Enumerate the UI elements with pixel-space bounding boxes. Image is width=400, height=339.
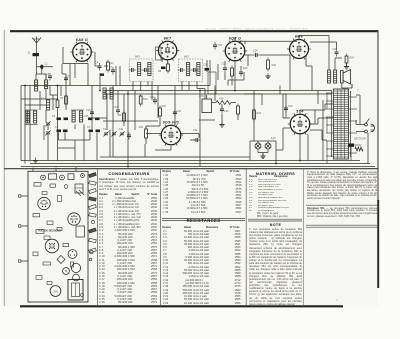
capacitor C14 — [150, 96, 157, 105]
IF transformer MF2 — [178, 56, 203, 82]
wire IF secondary drops — [103, 82, 200, 158]
chassis diamond part — [57, 256, 65, 264]
capacitor C19 — [213, 42, 223, 50]
wire output stage returns — [310, 42, 360, 120]
wire MF2 verticals — [162, 57, 205, 167]
svg-text:C16: C16 — [177, 110, 182, 113]
svg-text:C11: C11 — [119, 128, 124, 131]
wire detector lower — [207, 55, 248, 86]
svg-text:R22: R22 — [162, 105, 167, 108]
capacitor C7b — [100, 66, 120, 86]
capacitor C16 — [173, 109, 182, 117]
tube 6G5-6U5 magic eye — [159, 120, 184, 145]
coupling capacitor C24 — [253, 50, 261, 58]
wire lamp drops — [250, 141, 276, 164]
resistor R22 — [159, 105, 167, 119]
trimmer CV1 — [45, 121, 50, 126]
chassis small rects middle — [33, 214, 85, 247]
chassis left terminal stubs — [19, 195, 29, 262]
chassis small parts row — [34, 183, 83, 194]
chassis mounting stubs top — [33, 167, 76, 172]
svg-text:C20: C20 — [288, 105, 293, 108]
padding capacitor C8 row — [52, 115, 68, 120]
svg-text:MF2: MF2 — [184, 56, 190, 59]
diode load capacitor C18 — [203, 64, 209, 71]
potentiometer P resistor R16 — [212, 98, 236, 105]
junction dots — [24, 85, 301, 168]
wire choke lead — [322, 100, 324, 161]
cathode resistor R6 and capacitor C12 — [158, 62, 169, 74]
padding capacitor C2 — [55, 126, 68, 132]
AVC bus wire — [21, 85, 210, 87]
resistor R24 — [345, 54, 354, 66]
wire heater bus — [100, 156, 250, 158]
chassis trimmer screws top row — [41, 174, 85, 180]
wire vertical drops left — [21, 67, 58, 164]
padding capacitor C15 row — [84, 115, 100, 120]
svg-text:R10: R10 — [143, 98, 148, 101]
socket 6A8 underside — [38, 197, 50, 209]
coil L6 — [103, 88, 113, 99]
chassis power transformer box — [68, 280, 83, 301]
coil L4 with core — [25, 110, 38, 125]
wire 6Q8 plate top — [235, 37, 297, 44]
svg-text:5Y4: 5Y4 — [53, 290, 58, 293]
svg-text:6K7: 6K7 — [164, 37, 172, 41]
svg-text:R16: R16 — [219, 98, 224, 101]
trimmer CV2 — [45, 130, 50, 135]
svg-text:R32: R32 — [357, 144, 362, 147]
wire grid return horizontals — [21, 94, 286, 126]
socket 6Q8 underside — [68, 250, 77, 259]
power transformer T — [326, 89, 359, 164]
svg-text:6G5-6U5: 6G5-6U5 — [163, 120, 179, 124]
wire detector drops — [210, 60, 241, 101]
trimmer row — [103, 128, 131, 140]
tuning coil block L1 L2 — [35, 74, 48, 91]
tube 6Q8 G detector — [223, 36, 248, 61]
svg-text:R14: R14 — [257, 112, 262, 115]
resistor R32 — [355, 144, 363, 151]
wire IF section verticals — [95, 52, 148, 167]
antenna — [32, 37, 41, 44]
resistor R4 — [60, 94, 67, 107]
wire oscillator grid network — [36, 64, 66, 111]
capacitor C6 — [64, 75, 71, 83]
padding capacitor C3 — [87, 126, 100, 132]
tube 5Y4 rectifier — [288, 109, 313, 134]
ground bus bottom — [21, 161, 375, 167]
chassis component rect B — [68, 174, 74, 180]
oscillator coil L3 — [41, 97, 50, 110]
svg-text:C13: C13 — [113, 106, 118, 109]
detector RC cluster C22 R18 — [221, 63, 248, 79]
ground chassis 1 — [33, 158, 38, 164]
wire 6M6 plate to output transformer — [299, 36, 342, 64]
svg-text:R24: R24 — [350, 57, 355, 60]
wire mains — [356, 120, 368, 164]
resistor R9 — [118, 111, 125, 124]
svg-text:C14: C14 — [150, 96, 155, 99]
ground R20 — [265, 73, 270, 79]
capacitor C20 — [284, 105, 293, 113]
capacitor C10 — [86, 109, 94, 117]
svg-text:MF1: MF1 — [135, 56, 141, 59]
resistor R14 — [253, 108, 262, 122]
wire antenna lead — [37, 43, 54, 67]
tube 6K7 IF amplifier — [156, 37, 179, 61]
svg-text:C15: C15 — [84, 115, 89, 118]
svg-text:C24: C24 — [253, 50, 258, 53]
tube 6M6 output — [287, 35, 311, 60]
chassis outline (vue de dessous) — [28, 171, 88, 302]
loudspeaker — [341, 70, 351, 85]
svg-text:T: T — [357, 89, 359, 93]
wire 6M6 bias — [290, 56, 318, 104]
wire magic eye leads — [146, 134, 199, 151]
svg-text:C33: C33 — [343, 140, 348, 143]
ground dial lamps — [260, 153, 265, 159]
resistor R2 — [56, 98, 59, 111]
capacitor C28 with ground — [219, 104, 229, 127]
mains plug — [371, 124, 375, 132]
svg-text:6K7: 6K7 — [72, 218, 77, 222]
grid capacitor C4 — [95, 62, 102, 71]
wire AVC verticals — [30, 86, 360, 161]
ground R24 — [344, 64, 349, 70]
wire rectifier filament — [276, 128, 327, 150]
tuning capacitor CV underside — [45, 239, 59, 253]
chassis extra small parts — [33, 185, 84, 297]
coil L5 — [71, 110, 84, 122]
capacitor C5 — [46, 73, 52, 81]
wire oscillator section — [46, 110, 97, 161]
resistor R31 — [139, 126, 147, 144]
svg-text:6A8: 6A8 — [42, 202, 47, 206]
svg-text:6A8 G: 6A8 G — [76, 38, 88, 42]
dial lamps 6,3V — [250, 138, 276, 153]
svg-text:C30: C30 — [199, 95, 204, 98]
resistor R10 — [139, 94, 148, 107]
volume potentiometer box — [208, 69, 216, 95]
resistor R1 — [107, 60, 115, 73]
chassis component rect A — [49, 174, 57, 179]
svg-text:Z1: Z1 — [27, 52, 31, 55]
svg-text:R18: R18 — [243, 67, 248, 70]
screen bus wire B+ — [105, 91, 332, 95]
svg-text:6,3V: 6,3V — [271, 138, 276, 140]
mains switch — [365, 119, 370, 133]
capacitor C1 — [40, 63, 48, 70]
IF transformer MF1 — [129, 56, 154, 82]
capacitor C31 — [193, 129, 201, 142]
wire left block verticals — [40, 86, 97, 161]
can capacitor C30 — [199, 95, 212, 113]
svg-text:R20: R20 — [272, 64, 277, 67]
grid resistor R20 — [267, 58, 277, 72]
svg-text:CV: CV — [50, 245, 54, 248]
chassis right side parts column — [89, 172, 97, 260]
svg-text:VUE. DE DESSOUS: VUE. DE DESSOUS — [38, 230, 61, 233]
electrolytic capacitor C33 — [343, 140, 354, 161]
wire rectifier leads — [283, 94, 333, 161]
svg-text:C19: C19 — [218, 44, 223, 47]
svg-text:C28: C28 — [224, 110, 229, 113]
grid shield box 6K7 — [156, 47, 162, 60]
wire 6A8 cathode bend — [63, 47, 88, 86]
capacitor C13 — [113, 106, 120, 115]
tube 6A8 G converter — [70, 38, 94, 62]
socket 6M6 underside — [63, 268, 70, 275]
svg-text:C10: C10 — [86, 109, 91, 112]
svg-text:C31: C31 — [193, 129, 198, 132]
socket 5Y4 underside — [50, 286, 61, 297]
decoupling capacitor C26 — [333, 48, 339, 57]
wire output secondary — [342, 83, 352, 88]
resistor R26 — [237, 104, 240, 121]
wire 6Q8 to 6M6 grid — [245, 55, 290, 58]
svg-text:R31: R31 — [139, 126, 144, 129]
svg-text:RL 2485 . SUPER 5 LAMPES . 6A8: RL 2485 . SUPER 5 LAMPES . 6A8-6K7-6Q8-6… — [206, 27, 308, 30]
chassis electrolytic cans — [71, 262, 81, 281]
output transformer — [328, 63, 337, 83]
svg-text:SECTEUR: SECTEUR — [354, 138, 366, 141]
socket 6K7 underside — [68, 213, 80, 225]
fuse Z1 — [27, 52, 40, 57]
